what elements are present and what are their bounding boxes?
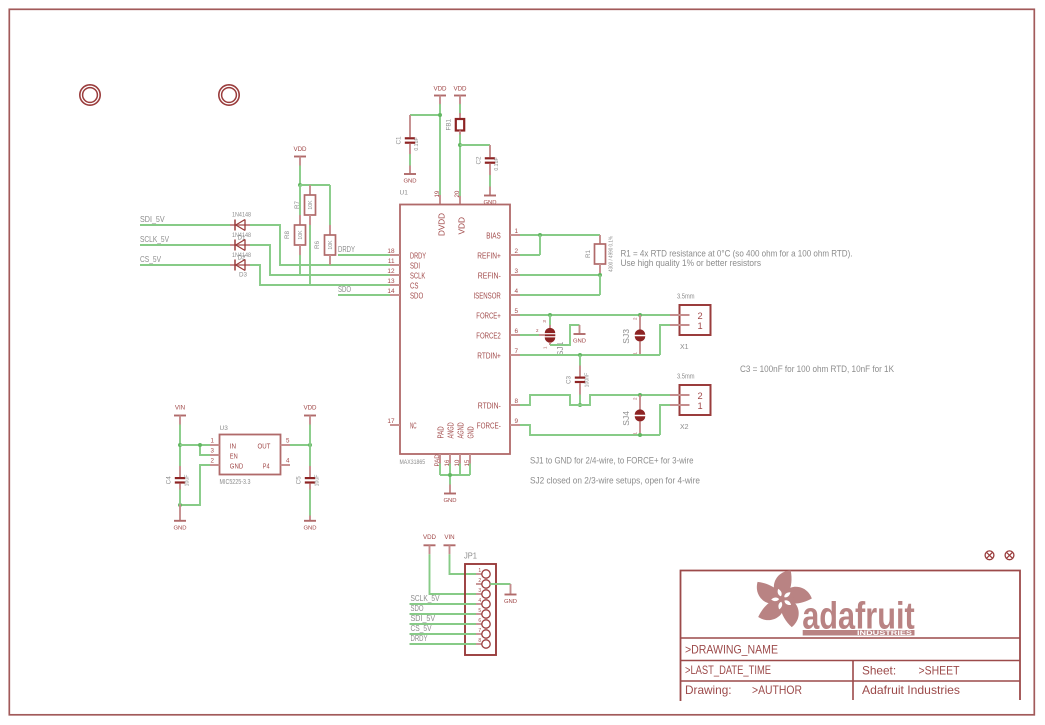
wire rail to R6 xyxy=(329,185,331,225)
svg-text:RTDIN+: RTDIN+ xyxy=(477,351,501,361)
svg-text:REFIN-: REFIN- xyxy=(478,271,501,281)
wire pin 16 down xyxy=(449,464,451,476)
wire R7 to CS line xyxy=(309,225,311,285)
svg-text:SDI: SDI xyxy=(410,261,420,271)
wire C1 to VDD net xyxy=(410,114,440,116)
svg-text:FB1: FB1 xyxy=(446,118,453,130)
wire SCLK_5V to JP1 xyxy=(410,603,477,605)
wire up to X1 pin 1 xyxy=(660,325,670,355)
wire D3 to CS pin 13 xyxy=(250,265,390,285)
svg-text:5: 5 xyxy=(478,608,481,614)
wire C4 to GND xyxy=(179,490,181,505)
JP1 pin 8 xyxy=(476,638,490,648)
svg-text:>AUTHOR: >AUTHOR xyxy=(752,683,802,697)
svg-text:20: 20 xyxy=(454,190,461,197)
power symbol VIN (JP1) xyxy=(444,534,456,554)
ground under C4 xyxy=(173,505,186,532)
junction C4/GND net xyxy=(178,503,182,507)
diode D2 1N4148 xyxy=(230,240,250,251)
wire to U3 IN xyxy=(180,444,210,446)
svg-text:U1: U1 xyxy=(400,190,409,197)
plot mark 2 xyxy=(1005,551,1014,560)
wire DRDY to pin 18 xyxy=(338,254,390,256)
junction FB1/C2 xyxy=(458,143,462,147)
ground near SJ1 xyxy=(573,325,586,345)
adafruit logo flower xyxy=(751,567,812,628)
svg-text:1: 1 xyxy=(515,228,519,235)
wire SDO to pin 14 xyxy=(338,294,390,296)
wire RTDIN- pin 8 to X2 xyxy=(520,395,670,405)
svg-text:2: 2 xyxy=(515,248,519,255)
ferrite bead FB1 xyxy=(446,113,465,135)
svg-text:GND: GND xyxy=(504,599,517,605)
JP1 pin 3 xyxy=(476,588,490,598)
wire FB1 to VDD pin 20 xyxy=(459,135,461,197)
resistor R8 10K pullup xyxy=(284,185,306,255)
U1 pin 1 BIAS xyxy=(486,228,520,240)
svg-text:Adafruit Industries: Adafruit Industries xyxy=(862,683,960,697)
svg-text:CS: CS xyxy=(410,281,419,291)
U1 pin 18 DRDY xyxy=(387,248,426,260)
svg-text:1: 1 xyxy=(698,321,703,331)
svg-text:10K: 10K xyxy=(308,200,314,210)
svg-text:EN: EN xyxy=(230,451,238,460)
svg-text:SCLK_5V: SCLK_5V xyxy=(140,234,169,244)
U1 pin 16 ANGD bottom xyxy=(444,422,456,466)
svg-text:SJ4: SJ4 xyxy=(621,411,631,426)
wire VDD to FB1 xyxy=(459,104,461,116)
JP1 pin 1 xyxy=(476,568,490,578)
svg-text:4: 4 xyxy=(286,458,290,465)
power symbol VDD (over pin 19) xyxy=(433,86,447,105)
wire R8 to SCLK line xyxy=(299,255,301,275)
wire up to X2 pin 1 xyxy=(660,405,670,435)
wire C5 to GND xyxy=(309,490,311,516)
svg-text:VIN: VIN xyxy=(175,405,185,412)
svg-text:SDO: SDO xyxy=(410,291,424,301)
svg-text:3: 3 xyxy=(478,588,481,594)
svg-text:C1: C1 xyxy=(396,136,403,145)
svg-text:R6: R6 xyxy=(314,240,321,249)
U1 pin 13 CS xyxy=(387,278,418,290)
svg-text:D3: D3 xyxy=(239,271,248,278)
svg-text:VDD: VDD xyxy=(453,86,467,93)
solder jumper SJ4 xyxy=(621,395,645,435)
svg-text:2: 2 xyxy=(698,311,703,321)
svg-text:8: 8 xyxy=(515,398,519,405)
svg-text:7: 7 xyxy=(515,348,519,355)
svg-text:SDO: SDO xyxy=(411,603,424,613)
svg-text:IN: IN xyxy=(230,441,236,450)
svg-text:4: 4 xyxy=(515,288,519,295)
svg-text:Use high quality 1% or better: Use high quality 1% or better resistors xyxy=(621,258,762,268)
svg-text:MIC5225-3.3: MIC5225-3.3 xyxy=(220,479,251,486)
svg-text:GND: GND xyxy=(443,498,456,504)
connector X2 3.5mm terminal xyxy=(670,374,711,431)
svg-text:9: 9 xyxy=(515,418,519,425)
wire VDD down xyxy=(299,166,301,186)
svg-text:SDO: SDO xyxy=(338,284,351,294)
svg-text:ISENSOR: ISENSOR xyxy=(474,291,501,301)
U1 pin 6 FORCE2 xyxy=(476,328,520,340)
svg-text:SJ2 closed on 2/3-wire setups,: SJ2 closed on 2/3-wire setups, open for … xyxy=(530,476,700,486)
wire EN tie to IN xyxy=(200,445,210,455)
wire DRDY to JP1 xyxy=(410,643,477,645)
capacitor C3 100nF xyxy=(566,355,591,395)
svg-text:SDI_5V: SDI_5V xyxy=(140,214,165,224)
svg-text:1: 1 xyxy=(211,438,215,445)
wire D1 to SDI pin 11 xyxy=(250,225,390,265)
resistor R6 10K pullup xyxy=(314,185,336,265)
wire FORCE2 pin 6 to SJ1 xyxy=(520,334,539,336)
junction BIAS/REFIN+ xyxy=(538,233,542,237)
junction FORCE+/SJ3 xyxy=(638,313,642,317)
wire FORCE- pin 9 xyxy=(520,425,660,435)
svg-text:SCLK_5V: SCLK_5V xyxy=(411,593,440,603)
power symbol VDD (JP1) xyxy=(423,534,437,554)
U3 pin 3 EN xyxy=(210,448,238,461)
U1 pin 10 AGND bottom xyxy=(454,422,466,466)
U1 pin 3 REFIN- xyxy=(478,268,520,280)
svg-text:DVDD: DVDD xyxy=(437,213,447,236)
wire VIN to JP1 pin 1 xyxy=(450,554,477,574)
wire REFIN+ pin 2 xyxy=(520,254,540,256)
svg-text:10uF: 10uF xyxy=(315,475,321,487)
JP1 pin 5 xyxy=(476,608,490,618)
svg-text:1: 1 xyxy=(478,568,481,574)
junction RTDIN-/SJ4 xyxy=(638,393,642,397)
svg-text:DRDY: DRDY xyxy=(410,251,426,261)
wire C1 to GND xyxy=(409,154,411,166)
svg-text:C4: C4 xyxy=(166,476,173,485)
pin 19 stub xyxy=(439,195,441,205)
svg-text:BIAS: BIAS xyxy=(486,231,501,241)
svg-text:C3 = 100nF for 100 ohm RTD, 10: C3 = 100nF for 100 ohm RTD, 10nF for 1K xyxy=(740,364,895,374)
svg-text:VDD: VDD xyxy=(433,86,447,93)
svg-text:RTDIN-: RTDIN- xyxy=(478,401,501,411)
wire pin 15 down xyxy=(469,464,471,476)
mounting hole H2 xyxy=(219,85,239,105)
wire SDI_5V to D1 xyxy=(140,224,230,226)
svg-text:Drawing:: Drawing: xyxy=(685,683,732,697)
svg-text:VDD: VDD xyxy=(457,217,467,235)
svg-text:VDD: VDD xyxy=(303,405,317,412)
svg-text:>LAST_DATE_TIME: >LAST_DATE_TIME xyxy=(685,663,771,677)
svg-text:FORCE2: FORCE2 xyxy=(476,331,501,341)
svg-text:Sheet:: Sheet: xyxy=(862,663,896,677)
U1 pin 17 NC xyxy=(387,418,416,430)
svg-text:1N4148: 1N4148 xyxy=(232,232,251,239)
svg-text:INDUSTRIES: INDUSTRIES xyxy=(857,630,913,637)
capacitor C4 10uF xyxy=(166,466,191,490)
voltage regulator U3 MIC5225-3.3 xyxy=(220,425,281,486)
svg-text:VDD: VDD xyxy=(423,534,437,541)
wire to C2 xyxy=(460,144,490,146)
capacitor C5 10uF xyxy=(296,466,321,490)
svg-text:8: 8 xyxy=(478,638,481,644)
pin 20 stub xyxy=(459,196,461,205)
svg-text:GND: GND xyxy=(403,179,416,185)
svg-text:7: 7 xyxy=(478,628,481,634)
junction pullup rail xyxy=(298,183,302,187)
svg-text:100nF: 100nF xyxy=(585,373,591,388)
junction RTDIN+/C3 xyxy=(578,353,582,357)
svg-text:GND: GND xyxy=(230,461,244,470)
svg-text:10K: 10K xyxy=(328,240,334,250)
svg-text:SJ3: SJ3 xyxy=(621,329,631,344)
svg-text:10uF: 10uF xyxy=(185,475,191,487)
svg-text:19: 19 xyxy=(434,190,441,197)
wire U3 GND down xyxy=(180,465,210,505)
U3 pin 1 IN xyxy=(210,438,236,451)
svg-text:PAD: PAD xyxy=(436,426,446,438)
wire VDD to C5 xyxy=(309,425,311,467)
JP1 pin 7 xyxy=(476,628,490,638)
wire JP1 pin 2 to GND xyxy=(490,583,510,585)
svg-text:4300 / 4990 0.1%: 4300 / 4990 0.1% xyxy=(609,236,615,272)
svg-text:FORCE-: FORCE- xyxy=(477,421,501,431)
U1 pin 8 RTDIN- xyxy=(478,398,520,410)
resistor R7 10K pullup xyxy=(294,185,316,225)
svg-text:6: 6 xyxy=(515,328,519,335)
svg-text:OUT: OUT xyxy=(258,441,271,450)
wire OUT to VDD xyxy=(290,444,310,446)
power symbol VDD (over FB1) xyxy=(453,86,467,105)
mounting hole H1 xyxy=(80,85,100,105)
U1 pin 19 DVDD top xyxy=(434,190,446,236)
wire SDO to JP1 xyxy=(410,613,477,615)
resistor R1 reference xyxy=(585,235,615,275)
svg-text:2: 2 xyxy=(478,578,481,584)
power symbol VIN (U3) xyxy=(174,405,186,425)
svg-text:SDI_5V: SDI_5V xyxy=(411,613,436,623)
svg-text:R1 = 4x RTD resistance at 0°C: R1 = 4x RTD resistance at 0°C (so 400 oh… xyxy=(621,248,853,258)
wire SJ1 pin 3 xyxy=(549,315,551,325)
svg-text:GND: GND xyxy=(303,525,316,531)
op-amp U1 MAX31865 main IC body xyxy=(400,190,511,466)
wire SDI_5V to JP1 xyxy=(410,623,477,625)
junction OUT/VDD/C5 xyxy=(308,443,312,447)
svg-text:1N4148: 1N4148 xyxy=(232,212,251,219)
ground under C1 xyxy=(403,166,416,185)
svg-text:CS_5V: CS_5V xyxy=(140,254,161,264)
svg-text:VIN: VIN xyxy=(444,534,454,541)
svg-text:10K: 10K xyxy=(298,230,304,240)
junction C3/RTDIN- xyxy=(578,403,582,407)
svg-text:VDD: VDD xyxy=(293,146,307,153)
svg-text:6: 6 xyxy=(478,618,481,624)
wire down to ISENSOR xyxy=(599,275,601,295)
svg-text:>SHEET: >SHEET xyxy=(919,663,960,677)
wire SCLK_5V to D2 xyxy=(140,244,230,246)
svg-text:X1: X1 xyxy=(680,344,689,351)
U1 pin 14 SDO xyxy=(387,288,423,300)
U1 pin 20 VDD top xyxy=(454,190,466,234)
wire C3 to RTDIN- net xyxy=(579,395,581,406)
junction ground bus xyxy=(448,473,452,477)
U1 pin 15 GND bottom xyxy=(464,426,476,466)
svg-text:GND: GND xyxy=(173,525,186,531)
svg-text:AGND: AGND xyxy=(456,422,466,438)
junction VDD/C1 xyxy=(438,113,442,117)
wire pullup rail xyxy=(300,184,330,186)
diode D3 1N4148 xyxy=(230,260,250,271)
U1 pin 2 REFIN+ xyxy=(477,248,520,260)
U1 pin 12 SCLK xyxy=(387,268,425,280)
wire REFIN+ up xyxy=(539,235,541,255)
svg-text:REFIN+: REFIN+ xyxy=(477,251,501,261)
ground under C2 xyxy=(483,187,496,207)
connector JP1 8-pin header xyxy=(464,552,496,656)
svg-text:2: 2 xyxy=(211,458,215,465)
svg-text:P4: P4 xyxy=(263,461,270,470)
wire to C3 xyxy=(579,355,581,366)
svg-text:1: 1 xyxy=(698,401,703,411)
wire VDD to JP1 pin 3 xyxy=(430,554,477,594)
U3 pin 5 OUT xyxy=(258,438,291,451)
junction FORCE-/SJ4 xyxy=(638,433,642,437)
JP1 pin 6 xyxy=(476,618,490,628)
wire BIAS pin 1 xyxy=(520,234,600,236)
svg-text:17: 17 xyxy=(387,418,395,425)
wire D2 to SCLK pin 12 xyxy=(250,245,390,275)
svg-text:R1: R1 xyxy=(585,249,592,258)
svg-text:GND: GND xyxy=(466,426,476,438)
title block outline xyxy=(681,571,1021,702)
svg-text:4: 4 xyxy=(478,598,481,604)
ground near JP1 xyxy=(504,584,517,605)
JP1 pin 2 xyxy=(476,578,490,588)
wire bus to ground xyxy=(449,475,451,485)
capacitor C1 0.1uF xyxy=(396,115,420,154)
svg-text:MAX31865: MAX31865 xyxy=(400,459,426,466)
JP1 pin 4 xyxy=(476,598,490,608)
svg-text:DRDY: DRDY xyxy=(338,244,355,254)
wire ground bus under U1 xyxy=(440,474,470,476)
capacitor C2 0.1uF xyxy=(476,145,500,175)
svg-text:>DRAWING_NAME: >DRAWING_NAME xyxy=(685,643,778,657)
junction VIN/U3 IN xyxy=(178,443,182,447)
adafruit logo INDUSTRIES bar xyxy=(803,630,915,636)
junction REFIN-/ISENSOR xyxy=(598,273,602,277)
svg-text:3.5mm: 3.5mm xyxy=(677,294,695,301)
wire RTDIN+ pin 7 xyxy=(520,354,660,356)
svg-text:3: 3 xyxy=(515,268,519,275)
plot mark 1 xyxy=(985,551,994,560)
svg-text:C5: C5 xyxy=(296,476,303,485)
wire VDD to DVDD pin 19 xyxy=(439,104,441,195)
svg-text:JP1: JP1 xyxy=(464,552,478,561)
svg-text:GND: GND xyxy=(573,339,586,345)
U1 pin 4 ISENSOR xyxy=(474,288,521,300)
wire REFIN- pin 3 xyxy=(520,274,600,276)
svg-text:1N4148: 1N4148 xyxy=(232,252,251,259)
wire C2 to GND xyxy=(489,175,491,187)
svg-text:3.5mm: 3.5mm xyxy=(677,374,695,381)
solder jumper SJ3 xyxy=(621,315,645,355)
svg-text:5: 5 xyxy=(515,308,519,315)
svg-text:CS_5V: CS_5V xyxy=(411,623,432,633)
U1 pin 7 RTDIN+ xyxy=(477,348,520,360)
svg-text:R8: R8 xyxy=(284,230,291,239)
svg-text:0.1uF: 0.1uF xyxy=(494,157,500,170)
wire SJ1 pin 1 to GND xyxy=(550,325,580,345)
wire CS_5V to D3 xyxy=(140,264,230,266)
wire FORCE+ pin 5 to X1 xyxy=(520,314,670,316)
wire VIN to C4 xyxy=(179,425,181,467)
wire CS_5V to JP1 xyxy=(410,633,477,635)
svg-text:2: 2 xyxy=(698,391,703,401)
junction IN/EN tie xyxy=(198,443,202,447)
svg-text:FORCE+: FORCE+ xyxy=(476,311,501,321)
svg-text:5: 5 xyxy=(286,438,290,445)
U3 pin 2 GND xyxy=(210,458,244,471)
svg-text:U3: U3 xyxy=(220,425,229,432)
svg-text:C2: C2 xyxy=(476,156,483,165)
U1 pin PAD PAD bottom xyxy=(434,426,446,466)
svg-text:DRDY: DRDY xyxy=(411,633,428,643)
diode D1 1N4148 xyxy=(230,220,250,231)
svg-text:SCLK: SCLK xyxy=(410,271,425,281)
wire pin 10 down xyxy=(459,464,461,476)
svg-text:NC: NC xyxy=(410,421,417,431)
svg-text:C3: C3 xyxy=(566,375,573,384)
svg-text:3: 3 xyxy=(211,448,215,455)
U1 pin 9 FORCE- xyxy=(477,418,520,430)
wire PAD pin down xyxy=(439,464,441,476)
ground under C5 xyxy=(303,516,316,532)
svg-text:X2: X2 xyxy=(680,424,689,431)
svg-text:0.1uF: 0.1uF xyxy=(414,137,420,150)
wire ISENSOR pin 4 xyxy=(520,294,600,296)
power symbol VDD (U3 out) xyxy=(303,405,317,425)
svg-text:ANGD: ANGD xyxy=(446,422,456,438)
solder jumper SJ1 (3-pad) xyxy=(536,315,565,356)
connector X1 3.5mm terminal xyxy=(670,294,711,351)
wire rail to R8 xyxy=(299,185,301,215)
junction FORCE+/SJ1 xyxy=(548,313,552,317)
U3 pin 4 P4 xyxy=(263,458,290,471)
ground under U1 xyxy=(443,485,456,505)
U1 pin 11 SDI xyxy=(388,258,420,270)
power symbol VDD (pullups) xyxy=(293,146,307,165)
U1 pin 5 FORCE+ xyxy=(476,308,520,320)
svg-text:SJ1 to GND for 2/4-wire, to FO: SJ1 to GND for 2/4-wire, to FORCE+ for 3… xyxy=(530,455,694,465)
